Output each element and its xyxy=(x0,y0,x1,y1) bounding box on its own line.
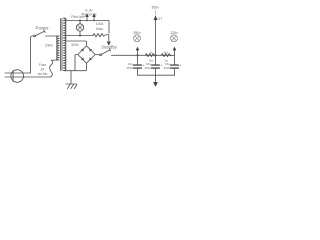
svg-text:Fuse: Fuse xyxy=(39,63,46,67)
arrow to bias xyxy=(107,42,111,46)
svg-text:bias: bias xyxy=(96,27,103,31)
wire plug bottom to fuse xyxy=(24,76,51,78)
svg-text:350v: 350v xyxy=(151,6,159,10)
output circle 1 xyxy=(134,35,141,42)
ground arrow xyxy=(155,75,157,82)
svg-text:4k7: 4k7 xyxy=(164,50,169,54)
transformer T1 primary winding xyxy=(57,36,59,60)
wire bridge to standby switch xyxy=(95,54,99,56)
transformer T1 secondary winding xyxy=(64,18,66,71)
svg-text:OT: OT xyxy=(158,17,163,21)
filament arrow 2 xyxy=(93,16,95,20)
resistor R bias xyxy=(93,34,109,41)
node filament junction 1 xyxy=(86,20,88,22)
AC plug prong bottom xyxy=(5,76,24,78)
output circle 2 xyxy=(171,35,178,42)
ground xyxy=(66,83,77,85)
svg-text:325v: 325v xyxy=(71,43,79,47)
svg-text:Standby: Standby xyxy=(101,45,117,50)
wire bridge left leg xyxy=(75,55,78,71)
ground rail xyxy=(138,74,175,76)
diode mark top-left xyxy=(81,49,84,52)
diode mark bottom-right xyxy=(89,57,92,60)
main B+ line xyxy=(112,54,175,56)
output arrow 2 xyxy=(174,50,176,55)
svg-text:230v: 230v xyxy=(45,44,53,48)
output arrow 1 xyxy=(137,50,139,55)
svg-text:Pilot lam: Pilot lam xyxy=(71,15,85,19)
node 2 junction xyxy=(154,54,156,56)
svg-text:450v: 450v xyxy=(144,66,151,70)
svg-text:Power: Power xyxy=(35,26,48,31)
node filament junction 2 xyxy=(93,20,95,22)
wire secondary tap HT line xyxy=(66,35,93,37)
bridge rectifier D1 xyxy=(78,46,95,63)
node pilot lamp top junction xyxy=(79,20,81,22)
svg-text:350v: 350v xyxy=(133,31,141,35)
wire secondary top 6.3v line xyxy=(64,18,109,33)
power switch S1 xyxy=(34,35,36,37)
AC plug P1 xyxy=(11,70,24,83)
resistor R1 xyxy=(146,54,156,57)
fuse F1 xyxy=(50,60,53,77)
diode mark top-right xyxy=(89,49,92,52)
svg-text:1k: 1k xyxy=(149,50,153,54)
resistor R2 xyxy=(162,54,172,57)
wire plug top to power switch xyxy=(24,36,34,73)
capacitor C3 xyxy=(174,55,176,64)
pilot lamp LP1 xyxy=(79,21,81,24)
capacitor C2 xyxy=(155,55,157,64)
wire switch to transformer primary top xyxy=(46,35,57,37)
OT arrowhead xyxy=(154,15,158,20)
svg-text:325v: 325v xyxy=(170,31,178,35)
transformer T1 core xyxy=(60,19,62,71)
diode mark bottom-left xyxy=(81,57,84,60)
capacitor C1 xyxy=(137,55,139,64)
node lamp bottom junction xyxy=(79,35,81,37)
AC plug face line xyxy=(12,71,14,82)
standby switch S2 xyxy=(100,54,102,56)
wire fuse to primary bottom xyxy=(52,59,57,61)
wire secondary bottom xyxy=(64,64,87,71)
svg-text:450v: 450v xyxy=(163,66,170,70)
OT riser wire xyxy=(155,20,157,56)
svg-text:slo-blo: slo-blo xyxy=(38,72,48,76)
AC plug prong top xyxy=(5,72,24,74)
filament arrow 1 xyxy=(86,16,88,20)
node 1 junction xyxy=(136,54,138,56)
ground wire xyxy=(70,71,72,84)
svg-text:100k: 100k xyxy=(96,22,104,26)
wire secondary tap to bridge top xyxy=(66,41,87,45)
svg-text:450v: 450v xyxy=(126,66,133,70)
